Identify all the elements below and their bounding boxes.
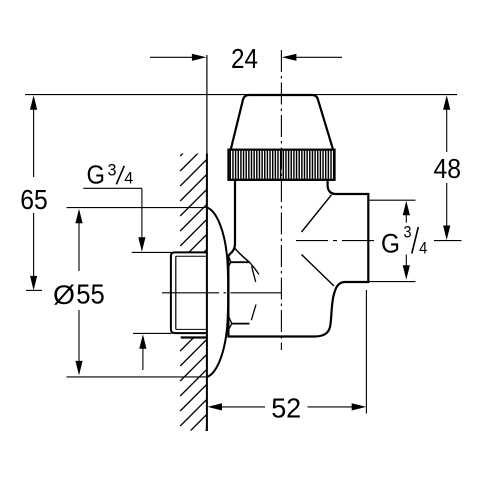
G 3/4 outlet extension bottom	[370, 281, 416, 283]
svg-text:48: 48	[434, 153, 462, 184]
label G 3/4 outlet	[381, 201, 427, 280]
wall hatching	[180, 129, 207, 471]
dimension 65	[20, 95, 48, 290]
seat detail outflow curve	[250, 262, 259, 274]
body chamfer diagonal upper	[302, 195, 332, 232]
vertical centerline	[280, 50, 282, 350]
svg-text:24: 24	[231, 43, 258, 74]
lower seat notch	[228, 316, 232, 331]
thread top edge extension	[132, 251, 172, 253]
outlet centerline right segment	[434, 240, 462, 242]
seat detail upper flat	[230, 261, 249, 263]
svg-text:G: G	[87, 159, 106, 189]
svg-text:4: 4	[124, 169, 133, 188]
dimension dia 55 extension bottom	[67, 376, 207, 378]
svg-text:4: 4	[419, 238, 427, 257]
seat detail tick	[252, 266, 256, 282]
outlet centerline	[296, 240, 378, 242]
valve cap (handle)	[231, 95, 333, 150]
dimension 52 extension right	[365, 290, 367, 414]
G 3/4 outlet extension top	[370, 199, 416, 201]
body chamfer diagonal lower	[302, 255, 335, 287]
wall flange dome	[207, 208, 228, 377]
svg-text:Ø: Ø	[53, 280, 75, 310]
lower seat flat	[232, 323, 250, 325]
top extension line	[25, 94, 457, 96]
knurled ring	[230, 151, 333, 179]
dimension dia 55 extension top	[67, 207, 207, 209]
svg-text:55: 55	[76, 279, 105, 310]
seat detail upper curve	[235, 248, 250, 262]
svg-text:3: 3	[404, 223, 412, 242]
wall hole edge below thread	[181, 336, 207, 338]
dimension dia 55	[53, 209, 105, 376]
svg-text:G: G	[381, 228, 400, 258]
G3/4 male thread stub	[171, 252, 207, 333]
wall face line (thin extension above)	[206, 55, 208, 154]
thread root line top	[176, 255, 207, 257]
inlet centerline	[162, 292, 281, 294]
valve body outline	[228, 180, 368, 337]
thread bottom edge extension	[133, 332, 172, 334]
label G 3/4 inlet	[83, 159, 146, 370]
dimension 24	[150, 43, 342, 74]
thread root line bottom	[176, 328, 207, 330]
svg-text:65: 65	[20, 184, 48, 215]
lower seat tick	[251, 305, 256, 321]
thread chamfer edge	[175, 256, 177, 329]
svg-text:3: 3	[108, 161, 117, 180]
dimension 48	[434, 95, 462, 240]
wall face line	[206, 154, 208, 432]
seat detail upper notch	[229, 256, 231, 267]
dimension 52	[208, 393, 367, 424]
svg-text:52: 52	[271, 393, 301, 424]
